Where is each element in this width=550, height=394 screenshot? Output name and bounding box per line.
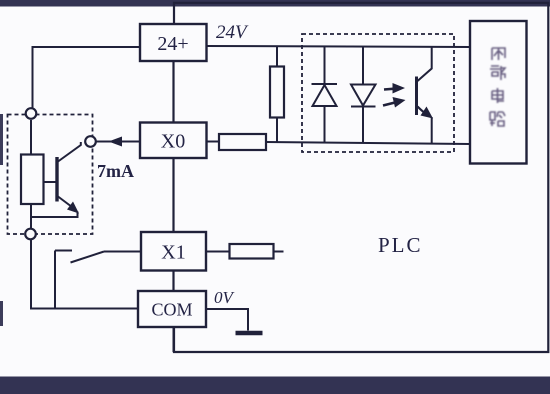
PLC enclosure box <box>174 3 548 352</box>
top navy border band <box>0 0 550 7</box>
char 部 <box>490 66 505 80</box>
wire: X0 to node C with current arrow <box>96 137 140 147</box>
light arrow lower <box>383 97 406 108</box>
node A (top circle) <box>26 108 37 119</box>
terminal box X0 <box>140 123 207 159</box>
svg-text:0V: 0V <box>214 288 236 307</box>
svg-text:7mA: 7mA <box>97 161 134 181</box>
resistor R2 (horizontal, X0 line) <box>219 134 266 150</box>
wire: X0 box to R2 <box>207 141 220 143</box>
node B (bottom circle) <box>25 229 36 240</box>
wire: R2 to internal circuit box (bottom rail) <box>266 142 470 144</box>
wire: X1 to R3 <box>206 251 230 253</box>
char 电 <box>492 88 504 103</box>
node C (X0 terminal circle) <box>85 136 96 147</box>
svg-text:PLC: PLC <box>378 233 423 257</box>
svg-text:24V: 24V <box>216 22 249 43</box>
dashed box: external sensor (left) <box>8 115 93 235</box>
wire: rail drop to R1 <box>276 46 278 66</box>
left-edge mark lower <box>0 301 3 326</box>
light arrow upper <box>384 83 405 94</box>
dashed box: optocoupler <box>302 34 454 152</box>
wire: 24V rail from 24+ to internal circuit box <box>207 46 471 47</box>
svg-text:24+: 24+ <box>157 33 188 55</box>
resistor R1 (vertical, 24V rail) <box>270 67 284 118</box>
wire: switch blade (open) <box>71 252 105 263</box>
LED D1 (up diode) <box>312 47 338 143</box>
svg-text:X0: X0 <box>161 131 185 153</box>
bottom navy border band <box>0 377 550 394</box>
LED D2 (down diode) <box>351 47 376 144</box>
terminal box 24+ <box>140 24 207 61</box>
wire: PLC left edge segment X1 to COM <box>172 271 174 292</box>
wire: PLC left edge segment 24+ to X0 <box>172 61 174 123</box>
wire: R3 right stub <box>274 251 284 253</box>
wire: R4 to node B <box>30 204 32 229</box>
char 内 <box>492 48 505 60</box>
resistor R4 (vertical, sensor) <box>21 155 44 205</box>
svg-text:X1: X1 <box>161 242 185 264</box>
wire: R4 tap to transistor base <box>44 181 56 183</box>
svg-text:COM: COM <box>151 300 192 320</box>
left-edge mark upper <box>0 114 3 165</box>
wire: switch pole down to COM wire <box>54 251 56 309</box>
wire: COM to ground <box>206 309 248 331</box>
label 内部电路 (vertical, blurred glyph approximations) <box>490 48 505 126</box>
ground symbol <box>236 331 263 336</box>
wire: COM bottom to PLC bottom edge <box>173 327 175 352</box>
wire: node A to resistor R4 <box>30 120 32 155</box>
internal circuit box <box>470 21 527 164</box>
wire: node B down and right to COM <box>31 240 138 309</box>
terminal box X1 <box>141 232 206 271</box>
wire: switch to X1 <box>104 251 141 253</box>
terminal box COM <box>138 291 206 327</box>
wire: 24+ left to node A <box>33 47 141 109</box>
char 路 <box>490 112 505 126</box>
resistor R3 (horizontal, X1 line) <box>230 244 274 259</box>
wire: R1 bottom to X0 line <box>276 118 278 143</box>
phototransistor Q2 <box>417 47 434 144</box>
wire: switch fixed contact stub <box>55 250 72 252</box>
transistor Q1 (sensor NPN) <box>31 142 81 217</box>
wire: PLC left edge segment X0 to X1 <box>172 158 174 232</box>
